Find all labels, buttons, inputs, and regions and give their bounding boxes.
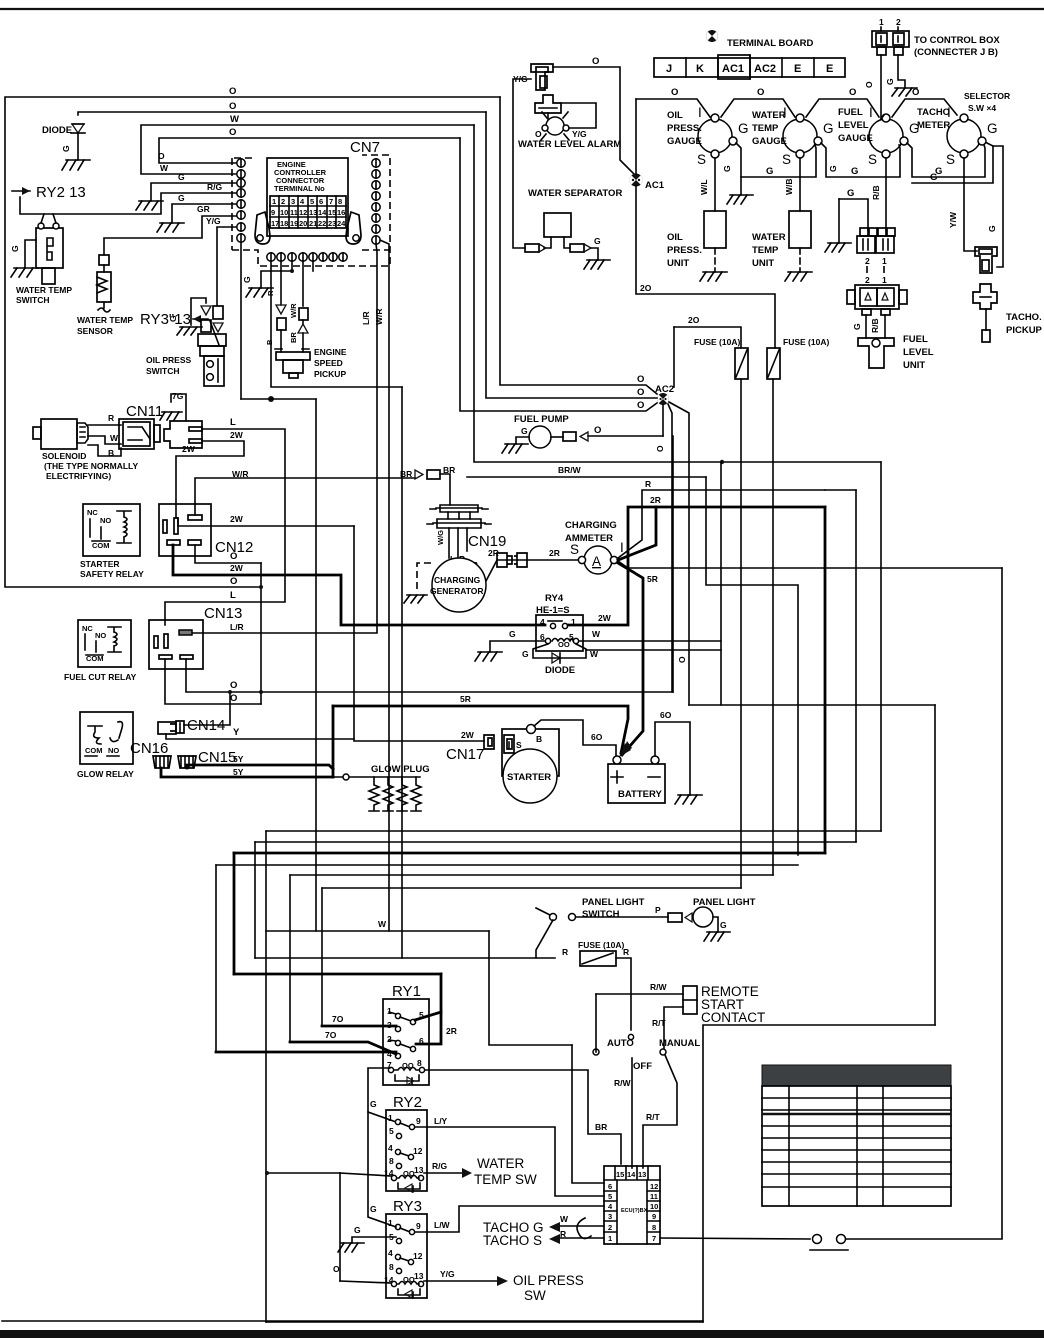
svg-text:18: 18	[280, 219, 288, 228]
ground pin3	[136, 201, 163, 210]
wire alarm top to AC1	[553, 67, 636, 176]
svg-text:W: W	[592, 629, 601, 639]
svg-text:R/B: R/B	[870, 318, 880, 333]
svg-text:1: 1	[882, 256, 887, 266]
RY3 ground G wire	[352, 1237, 396, 1243]
wire long vertical x402	[401, 387, 403, 958]
tacho meter	[917, 105, 998, 167]
svg-text:CHARGING: CHARGING	[565, 520, 617, 531]
svg-text:J: J	[666, 63, 672, 75]
svg-text:7: 7	[652, 1234, 656, 1243]
glow plug resistors	[369, 777, 421, 811]
svg-text:TEMP: TEMP	[752, 245, 779, 256]
bus 2 wire to fuse, R labels	[255, 957, 555, 959]
svg-text:Y/G: Y/G	[206, 216, 221, 226]
svg-text:PRESS.: PRESS.	[667, 245, 702, 256]
water temp unit	[752, 158, 812, 281]
bus line 4	[216, 864, 798, 866]
wire O from CN12 bottom right pin	[195, 545, 261, 563]
svg-text:2W: 2W	[230, 430, 244, 440]
wire pin b1 down and right to AC2	[271, 261, 402, 387]
svg-text:12: 12	[413, 1146, 423, 1156]
svg-text:GLOW PLUG: GLOW PLUG	[371, 764, 430, 775]
bus line 5	[290, 874, 773, 876]
svg-text:RY3"13: RY3"13	[140, 311, 191, 328]
svg-text:L: L	[230, 590, 236, 601]
wire thick riser to 5R	[332, 706, 335, 777]
wire R/G pin4 to RY2 13	[20, 193, 237, 214]
svg-text:3: 3	[608, 1212, 612, 1221]
wire fuel gauge I from control box	[881, 115, 884, 119]
svg-text:TEMP: TEMP	[752, 123, 779, 134]
svg-text:LEVEL: LEVEL	[838, 120, 869, 131]
wire Y/G pin7 down to oil press switch	[217, 227, 237, 305]
svg-text:GENERATOR: GENERATOR	[430, 586, 484, 596]
svg-text:GAUGE: GAUGE	[752, 136, 787, 147]
svg-text:SOLENOID: SOLENOID	[42, 451, 86, 461]
svg-text:NC: NC	[87, 508, 98, 517]
svg-text:6O: 6O	[591, 732, 603, 742]
svg-text:OIL: OIL	[667, 110, 683, 121]
svg-text:ENGINE: ENGINE	[314, 347, 347, 357]
svg-text:6O: 6O	[660, 710, 672, 720]
svg-text:13: 13	[638, 1170, 646, 1179]
svg-text:NO: NO	[95, 631, 106, 640]
wire alarm left down to separator	[513, 79, 531, 248]
svg-text:SWITCH: SWITCH	[582, 909, 620, 920]
svg-text:W/L: W/L	[699, 179, 709, 195]
svg-text:G: G	[847, 188, 854, 199]
svg-text:W/G: W/G	[436, 530, 445, 545]
svg-text:Y: Y	[233, 727, 240, 738]
svg-text:BR/W: BR/W	[558, 465, 582, 475]
CN15 connector	[178, 756, 196, 768]
page bottom thick bar	[0, 1330, 1044, 1338]
svg-text:6: 6	[608, 1182, 612, 1191]
svg-text:O: O	[757, 87, 764, 98]
svg-text:WATER: WATER	[752, 232, 786, 243]
svg-text:5R: 5R	[460, 694, 471, 704]
RY1 pin5/6 2R bracket	[234, 973, 441, 976]
svg-text:13: 13	[414, 1271, 424, 1281]
svg-text:E: E	[826, 63, 833, 75]
svg-text:DIODE: DIODE	[545, 665, 575, 676]
svg-text:CN13: CN13	[204, 605, 242, 622]
svg-text:I: I	[698, 105, 702, 120]
svg-text:OFF: OFF	[633, 1061, 652, 1072]
page top rule	[0, 8, 1044, 10]
svg-text:2W: 2W	[230, 563, 244, 573]
tacho pickup upper connector	[975, 247, 997, 273]
CN14 connector	[158, 721, 184, 734]
svg-text:1: 1	[388, 1113, 393, 1123]
fuel level unit	[865, 315, 867, 338]
RY3 pin1 G wire from RY2 area	[368, 1112, 396, 1227]
engine controller box	[267, 158, 348, 236]
svg-text:O: O	[594, 425, 601, 436]
svg-text:O: O	[677, 656, 687, 663]
fuel level gauge	[838, 105, 920, 167]
engine speed pickup	[275, 347, 347, 379]
tacho G wires	[912, 143, 993, 183]
svg-text:7O: 7O	[325, 1030, 337, 1040]
svg-text:AC1: AC1	[722, 63, 744, 75]
svg-text:R/B: R/B	[871, 185, 881, 200]
CN11 mate connector	[164, 421, 202, 448]
svg-text:R: R	[645, 479, 651, 489]
svg-text:O: O	[637, 374, 644, 385]
svg-text:9: 9	[652, 1212, 656, 1221]
CN7 left pin column	[237, 159, 245, 242]
water level alarm float assembly	[535, 95, 596, 140]
svg-text:CN11: CN11	[126, 403, 163, 420]
CN7 right pin column	[372, 159, 380, 244]
wire L from CN11 to CN13 column	[165, 429, 285, 625]
CN13 connector	[149, 620, 203, 669]
bus line 1	[266, 830, 881, 832]
svg-text:Y/G: Y/G	[572, 129, 587, 139]
svg-text:2: 2	[896, 17, 901, 27]
svg-text:G: G	[852, 323, 862, 330]
svg-text:G: G	[61, 145, 71, 152]
svg-text:AC2: AC2	[754, 63, 776, 75]
svg-text:13: 13	[414, 1165, 424, 1175]
thick 5R bus to battery	[333, 706, 628, 753]
svg-text:S: S	[516, 740, 522, 750]
svg-text:O: O	[229, 101, 236, 112]
oil press unit	[667, 158, 727, 281]
svg-text:G: G	[738, 121, 749, 136]
svg-text:OO: OO	[558, 640, 570, 649]
bus line 7	[266, 930, 489, 932]
wire pin14 from left long	[340, 1173, 391, 1176]
svg-text:G: G	[828, 165, 838, 172]
svg-text:AC1: AC1	[645, 180, 665, 191]
svg-text:G: G	[987, 225, 997, 232]
svg-text:1: 1	[387, 1006, 392, 1016]
wire W (pin2)	[141, 125, 474, 174]
svg-text:S: S	[868, 152, 877, 167]
svg-text:K: K	[696, 63, 704, 75]
solenoid	[33, 419, 138, 481]
svg-text:NO: NO	[100, 516, 111, 525]
svg-text:R: R	[108, 413, 114, 423]
svg-text:8: 8	[652, 1223, 656, 1232]
svg-text:4: 4	[388, 1248, 393, 1258]
svg-text:4: 4	[540, 617, 545, 627]
svg-text:A: A	[592, 554, 601, 569]
CN12 connector	[159, 504, 211, 556]
fuse2 (10A)	[767, 337, 829, 875]
wire 2W long from CN12 left pin right to x628	[178, 518, 354, 526]
svg-text:ELECTRIFYING): ELECTRIFYING)	[46, 471, 111, 481]
svg-text:W: W	[378, 919, 387, 929]
svg-text:CN7: CN7	[350, 139, 380, 156]
svg-text:10: 10	[280, 208, 288, 217]
svg-text:G: G	[722, 165, 732, 172]
svg-text:G: G	[370, 1099, 377, 1109]
svg-text:O: O	[229, 86, 236, 97]
svg-text:G: G	[987, 121, 998, 136]
svg-text:19: 19	[290, 219, 298, 228]
charging ammeter	[565, 520, 624, 574]
svg-text:UNIT: UNIT	[903, 360, 925, 371]
page bottom thin rule	[2, 1320, 703, 1322]
RY2 wires: L/Y to ECU5	[415, 1127, 604, 1196]
wire 2W CN17	[354, 526, 484, 741]
svg-text:7O: 7O	[332, 1014, 344, 1024]
svg-text:14: 14	[627, 1170, 636, 1179]
svg-text:L/Y: L/Y	[434, 1116, 448, 1126]
svg-text:15: 15	[616, 1170, 624, 1179]
svg-text:PANEL LIGHT: PANEL LIGHT	[582, 897, 645, 908]
svg-text:STARTER: STARTER	[80, 559, 120, 569]
svg-text:TACHO S: TACHO S	[483, 1233, 542, 1248]
water separator	[525, 213, 610, 269]
svg-text:24: 24	[337, 219, 346, 228]
CN7 left ear	[255, 212, 270, 244]
svg-text:WATER TEMP: WATER TEMP	[16, 285, 72, 295]
gen output 2R to ammeter	[486, 560, 580, 581]
svg-text:SPEED: SPEED	[314, 358, 343, 368]
svg-text:METER: METER	[917, 120, 950, 131]
svg-text:TERMINAL No: TERMINAL No	[274, 184, 325, 193]
wire O from CN13 left bottom pin to x261	[165, 659, 261, 704]
svg-text:S: S	[946, 152, 955, 167]
svg-text:SWITCH: SWITCH	[16, 295, 50, 305]
svg-text:O: O	[637, 387, 644, 398]
fuel level sender connectors	[825, 158, 934, 371]
svg-text:GAUGE: GAUGE	[838, 133, 873, 144]
ground pin5	[157, 223, 184, 232]
svg-text:2O: 2O	[688, 315, 700, 325]
svg-text:GAUGE: GAUGE	[667, 136, 702, 147]
svg-text:O: O	[671, 87, 678, 98]
wire AC1 up to bus	[635, 99, 637, 174]
svg-text:BR: BR	[595, 1122, 607, 1132]
svg-text:5: 5	[608, 1192, 612, 1201]
svg-text:BR: BR	[289, 332, 298, 343]
svg-text:S: S	[782, 152, 791, 167]
wire b4 to speed pickup (W/R, arrow)	[289, 261, 308, 352]
svg-text:TO CONTROL BOX: TO CONTROL BOX	[914, 35, 1000, 46]
svg-text:CN15: CN15	[198, 749, 236, 766]
svg-text:L/R: L/R	[230, 622, 244, 632]
svg-text:UNIT: UNIT	[752, 258, 774, 269]
bus line 6	[322, 887, 741, 889]
wire branch down to CN14	[184, 692, 230, 725]
svg-text:ECU(?)BX: ECU(?)BX	[621, 1208, 648, 1214]
svg-text:4: 4	[388, 1143, 393, 1153]
wire TACHO G from ECU pin2	[483, 1214, 604, 1235]
RY1 pin8 wire right then down to ECU 15 (BR)	[425, 1070, 621, 1164]
svg-text:B: B	[265, 339, 274, 345]
svg-text:14: 14	[318, 208, 327, 217]
wire AC1 vertical down to 2O corner	[636, 186, 775, 348]
svg-text:CN17: CN17	[446, 746, 484, 763]
svg-text:R/W: R/W	[650, 982, 668, 992]
svg-text:8: 8	[389, 1156, 394, 1166]
bus line 2	[255, 841, 856, 843]
svg-text:W/R: W/R	[374, 308, 384, 325]
svg-text:RY4: RY4	[545, 593, 564, 604]
water temp switch	[10, 214, 72, 305]
svg-text:WATER TEMP: WATER TEMP	[77, 315, 133, 325]
wire starter B to battery 6O	[534, 720, 616, 757]
svg-text:23: 23	[328, 219, 336, 228]
wire: big loop left border	[5, 97, 500, 587]
water level alarm connector	[513, 64, 553, 90]
svg-text:STARTER: STARTER	[507, 772, 551, 783]
svg-text:2: 2	[865, 256, 870, 266]
wire O4 (pin1)	[159, 138, 460, 163]
two-circle contact	[810, 1235, 1002, 1251]
wire 2W RY4 pin1 to x628 riser (thick)	[568, 507, 656, 625]
wire GR pin6 to water temp sensor	[104, 216, 237, 255]
svg-text:11: 11	[290, 208, 298, 217]
CN7 right ear	[346, 212, 361, 244]
svg-text:W/R: W/R	[232, 469, 249, 479]
svg-text:2R: 2R	[446, 1026, 457, 1036]
svg-text:G: G	[242, 276, 252, 283]
svg-text:13: 13	[309, 208, 317, 217]
svg-text:GR: GR	[197, 204, 210, 214]
svg-text:SELECTOR: SELECTOR	[964, 91, 1010, 101]
svg-text:SWITCH: SWITCH	[146, 366, 180, 376]
wire pin8-col vertical to AC2 row	[241, 398, 316, 400]
svg-text:FUEL: FUEL	[903, 334, 928, 345]
svg-text:O: O	[637, 400, 644, 411]
svg-text:RY2: RY2	[393, 1094, 422, 1111]
CN19 connector	[427, 505, 506, 570]
diode bracket under RY4	[522, 644, 721, 676]
node AC1	[629, 174, 664, 192]
gauge G chain wires	[736, 143, 816, 177]
svg-text:R/T: R/T	[646, 1112, 661, 1122]
svg-text:2W: 2W	[598, 613, 612, 623]
svg-text:2W: 2W	[461, 730, 475, 740]
wire ground for b3/b5	[261, 261, 292, 288]
svg-text:BATTERY: BATTERY	[618, 789, 662, 800]
tacho pickup lower plug	[973, 284, 997, 309]
svg-text:OO: OO	[402, 1061, 414, 1070]
svg-text:G: G	[823, 121, 834, 136]
water temp sensor	[77, 255, 133, 336]
svg-text:FUEL CUT RELAY: FUEL CUT RELAY	[64, 672, 137, 682]
svg-text:11: 11	[650, 1192, 658, 1201]
svg-text:L/R: L/R	[361, 311, 371, 325]
svg-text:6: 6	[319, 197, 323, 206]
svg-text:2: 2	[865, 275, 870, 285]
svg-text:2W: 2W	[230, 514, 244, 524]
bottom-left enclosure wire	[266, 1321, 703, 1323]
svg-text:G: G	[370, 1204, 377, 1214]
RY2 13 wire R/G arrow to WATER TEMP SW	[424, 1172, 462, 1174]
svg-text:LEVEL: LEVEL	[903, 347, 934, 358]
svg-text:S: S	[697, 152, 706, 167]
wire G pin3 to ground	[151, 183, 237, 201]
svg-text:W/R: W/R	[289, 303, 298, 318]
svg-text:W: W	[560, 1214, 569, 1224]
svg-text:3: 3	[291, 197, 295, 206]
svg-text:5: 5	[310, 197, 314, 206]
svg-text:COM: COM	[85, 746, 103, 755]
ground under diode	[62, 160, 90, 170]
svg-text:17: 17	[271, 219, 279, 228]
svg-text:Y/G: Y/G	[440, 1269, 455, 1279]
svg-text:2R: 2R	[650, 495, 661, 505]
svg-text:L: L	[230, 417, 236, 428]
svg-text:OIL: OIL	[667, 232, 683, 243]
svg-text:9: 9	[416, 1116, 421, 1126]
svg-text:12: 12	[650, 1182, 658, 1191]
control box connector	[872, 17, 1000, 58]
svg-text:G: G	[930, 172, 937, 183]
fuel lower connector	[855, 285, 899, 309]
fuel pump	[502, 414, 663, 453]
wire ECU7 right to contact	[660, 1238, 810, 1239]
svg-text:B: B	[108, 448, 114, 458]
RY1 wires	[322, 1025, 396, 1028]
wire G pin5 to ground	[172, 204, 237, 223]
bus line 3 (2R thick)	[234, 852, 825, 855]
svg-text:G: G	[354, 1225, 361, 1235]
CN7 bottom pin row	[267, 253, 347, 261]
oil press switch	[146, 298, 226, 386]
svg-text:8: 8	[338, 197, 342, 206]
terminal board row	[654, 55, 845, 79]
svg-text:15: 15	[328, 208, 336, 217]
svg-text:FUSE (10A): FUSE (10A)	[694, 337, 740, 347]
svg-text:O: O	[229, 127, 236, 138]
svg-text:RY3: RY3	[393, 1198, 422, 1215]
svg-text:PICKUP: PICKUP	[314, 369, 346, 379]
svg-text:G: G	[521, 426, 528, 436]
svg-text:G: G	[509, 629, 516, 639]
glow relay box	[80, 712, 133, 764]
wire W long: x474 down, right along 462 to x881	[474, 125, 881, 462]
svg-text:B: B	[536, 734, 542, 744]
svg-text:R: R	[623, 947, 629, 957]
RY3 O wire into pin14	[340, 1281, 391, 1283]
svg-text:CHARGING: CHARGING	[434, 575, 481, 585]
svg-text:R: R	[266, 290, 275, 296]
svg-text:2O: 2O	[640, 283, 652, 293]
wire 5Y thick from CN15 to x333 riser	[187, 765, 333, 769]
svg-text:WATER: WATER	[477, 1156, 524, 1171]
svg-text:10: 10	[650, 1202, 658, 1211]
svg-text:1: 1	[879, 17, 884, 27]
svg-text:5R: 5R	[647, 574, 658, 584]
svg-text:O: O	[230, 576, 237, 587]
wire b2 to speed pickup (R, arrow)	[265, 261, 286, 352]
CN16 connector	[153, 756, 171, 768]
svg-text:WATER SEPARATOR: WATER SEPARATOR	[528, 188, 622, 199]
svg-text:CN16: CN16	[130, 740, 168, 757]
svg-text:Y/W: Y/W	[948, 211, 958, 228]
svg-text:20: 20	[299, 219, 307, 228]
svg-text:2R: 2R	[549, 548, 560, 558]
svg-text:21: 21	[309, 219, 317, 228]
svg-text:2W: 2W	[182, 444, 196, 454]
RY1 pin7 wire down to RY2 pin1	[368, 1068, 396, 1122]
svg-text:FUEL PUMP: FUEL PUMP	[514, 414, 569, 425]
svg-text:SAFETY RELAY: SAFETY RELAY	[80, 569, 144, 579]
node AC2	[655, 384, 674, 405]
svg-text:G: G	[10, 245, 20, 252]
starter safety relay box	[83, 504, 140, 556]
svg-text:G: G	[178, 172, 185, 182]
